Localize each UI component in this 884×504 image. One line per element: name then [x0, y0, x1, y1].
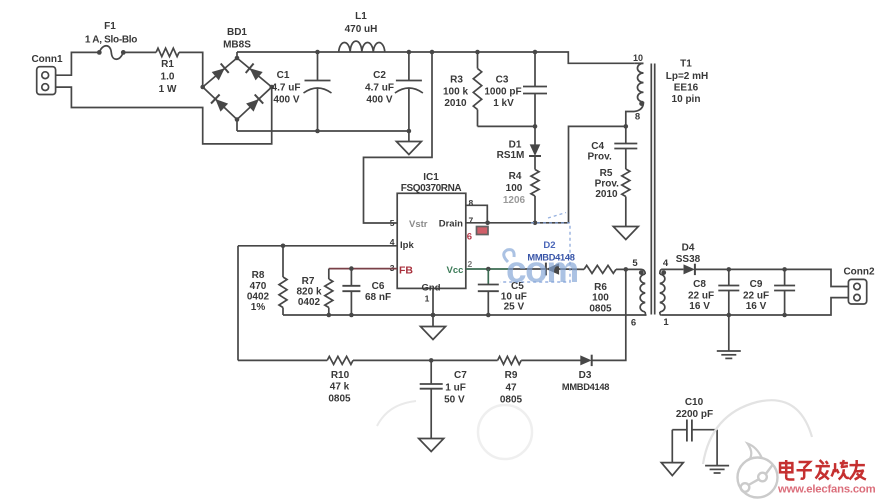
svg-text:1000 pF: 1000 pF: [484, 87, 521, 98]
svg-text:50 V: 50 V: [444, 395, 465, 406]
wire bridge plus to top rail: [236, 52, 238, 58]
svg-text:1 W: 1 W: [159, 84, 177, 95]
svg-text:5: 5: [632, 258, 638, 269]
resistor R9: [498, 356, 523, 405]
svg-text:0805: 0805: [589, 304, 612, 315]
svg-text:100: 100: [506, 183, 523, 194]
svg-text:2: 2: [468, 259, 473, 269]
svg-text:1 A, Slo-Blo: 1 A, Slo-Blo: [85, 35, 137, 46]
wire Vcc pin: [466, 267, 546, 272]
capacitor C10: [672, 397, 717, 442]
IC1 pin 3: [390, 263, 395, 273]
svg-text:BD1: BD1: [227, 27, 247, 38]
svg-text:1206: 1206: [503, 195, 526, 206]
svg-text:R6: R6: [594, 282, 607, 293]
svg-text:1: 1: [425, 294, 430, 304]
inductor L1: [339, 11, 385, 52]
T1 pin 6: [631, 318, 636, 329]
wire Conn1 pin1 to fuse: [56, 52, 100, 75]
svg-text:Conn2: Conn2: [843, 267, 875, 278]
wire Gnd pin: [431, 288, 436, 317]
wire ground rail: [283, 313, 647, 318]
svg-text:4.7 uF: 4.7 uF: [365, 83, 394, 94]
capacitor C6: [342, 269, 391, 318]
IC1 pin 8: [469, 198, 474, 208]
svg-text:1%: 1%: [251, 302, 266, 313]
wire bridge minus to bottom rail: [236, 120, 238, 132]
svg-text:SS38: SS38: [676, 254, 701, 265]
wire Ipk pin to left rail: [238, 244, 397, 249]
svg-text:100 k: 100 k: [443, 87, 468, 98]
resistor R5: [595, 168, 630, 227]
wire R6 to aux winding: [616, 267, 642, 272]
svg-text:R9: R9: [505, 370, 518, 381]
svg-text:C3: C3: [496, 75, 509, 86]
wire drain pins: [466, 205, 490, 225]
resistor R8: [247, 246, 287, 315]
bridge rectifier BD1: [200, 27, 274, 122]
earth ground below C10 right: [705, 466, 729, 473]
fuse F1: [85, 21, 137, 59]
wire R10 rail: [238, 359, 327, 361]
capacitor C2: [365, 50, 423, 134]
connector Conn1: [31, 54, 63, 95]
wire secondary bottom rail: [661, 298, 848, 318]
wire Vstr pin route: [364, 50, 435, 223]
IC1 Gnd label: [422, 283, 441, 294]
svg-text:T1: T1: [680, 59, 692, 70]
wire drain riser: [569, 124, 629, 223]
diode D3: [562, 355, 609, 392]
IC1 Ipk label: [400, 240, 414, 251]
svg-text:470 uH: 470 uH: [345, 24, 378, 35]
IC1 Vcc label: [447, 265, 464, 276]
svg-text:EE16: EE16: [674, 83, 699, 94]
capacitor C3: [484, 50, 547, 127]
svg-text:Vcc: Vcc: [447, 265, 464, 276]
svg-text:100: 100: [592, 293, 609, 304]
svg-text:C9: C9: [750, 279, 763, 290]
watermark blue com text: [504, 249, 578, 290]
svg-text:www.elecfans.com: www.elecfans.com: [777, 484, 876, 496]
svg-text:R7: R7: [302, 276, 315, 287]
svg-text:Drain: Drain: [439, 219, 463, 230]
wire drain rail: [488, 221, 569, 226]
svg-text:RS1M: RS1M: [497, 150, 525, 161]
IC1 pin 1: [425, 294, 430, 304]
svg-text:10 pin: 10 pin: [672, 94, 701, 105]
svg-text:8: 8: [469, 198, 474, 208]
svg-text:470: 470: [250, 281, 267, 292]
ground below C8: [717, 315, 741, 358]
svg-text:L1: L1: [355, 11, 367, 22]
T1 pin 10: [633, 53, 643, 63]
svg-text:MMBD4148: MMBD4148: [562, 382, 609, 392]
T1 pin 1: [663, 317, 669, 328]
diode D1: [497, 126, 541, 161]
svg-text:0805: 0805: [328, 394, 351, 405]
svg-text:4: 4: [663, 258, 669, 269]
svg-text:2010: 2010: [444, 98, 467, 109]
logo red chinese text: [780, 460, 866, 479]
svg-text:8: 8: [635, 112, 640, 123]
wire C10 left leg: [671, 430, 673, 463]
svg-text:C1: C1: [277, 70, 290, 81]
svg-text:R5: R5: [600, 168, 613, 179]
capacitor C1: [272, 50, 332, 134]
IC1 pin 4: [390, 237, 395, 247]
wire fuse to R1: [123, 51, 156, 53]
svg-text:22 uF: 22 uF: [743, 291, 769, 302]
logo url text: [777, 484, 876, 496]
svg-text:D1: D1: [509, 140, 522, 151]
IC1 FB label: [399, 265, 413, 277]
svg-text:Lp=2 mH: Lp=2 mH: [666, 71, 709, 82]
svg-text:7: 7: [469, 216, 474, 226]
op-amp U1 IC1 FSQ0370RNA box: [397, 172, 466, 288]
wire bottom rail: [237, 130, 409, 132]
resistor R3: [443, 50, 482, 127]
IC1 pin 5: [390, 218, 395, 228]
ground below R5: [613, 227, 638, 240]
wire Conn1 pin2 to bridge AC2: [56, 87, 272, 144]
svg-text:68 nF: 68 nF: [365, 292, 391, 303]
resistor R10: [327, 356, 353, 404]
wire FB pin: [329, 266, 397, 271]
diode D2: [527, 240, 574, 275]
svg-text:C2: C2: [373, 70, 386, 81]
svg-text:C7: C7: [454, 370, 467, 381]
svg-text:com: com: [506, 249, 578, 290]
transformer T1 secondary winding: [660, 269, 666, 315]
capacitor C7: [420, 360, 468, 438]
svg-text:6: 6: [467, 232, 472, 243]
svg-text:FB: FB: [399, 265, 413, 277]
wire R9 to D3: [521, 359, 580, 361]
connector Conn2: [843, 267, 875, 305]
watermark red block near IC1 pin 6: [477, 227, 489, 235]
wire D2 to R6: [559, 268, 585, 270]
ground below C2: [396, 131, 421, 155]
svg-text:25 V: 25 V: [504, 302, 525, 313]
svg-text:0402: 0402: [247, 292, 270, 303]
IC1 pin 2: [468, 259, 473, 269]
svg-text:Gnd: Gnd: [422, 283, 441, 294]
transformer T1 aux winding: [639, 269, 647, 315]
svg-text:C8: C8: [693, 279, 706, 290]
transformer T1 primary winding: [626, 63, 644, 126]
ground below C10 left: [661, 463, 683, 476]
svg-text:R3: R3: [450, 75, 463, 86]
wire snubber bottom: [478, 124, 538, 129]
svg-text:1.0: 1.0: [161, 72, 175, 83]
capacitor C4: [587, 126, 637, 169]
svg-text:Vstr: Vstr: [409, 219, 428, 230]
IC1 Vstr label: [409, 219, 428, 230]
svg-text:10: 10: [633, 53, 643, 63]
transformer T1 core: [651, 64, 654, 315]
svg-text:D3: D3: [579, 370, 592, 381]
IC1 Drain label: [439, 219, 463, 230]
wire secondary top rail: [695, 267, 848, 286]
svg-text:2010: 2010: [595, 189, 618, 200]
svg-text:6: 6: [631, 318, 636, 329]
svg-text:FSQ0370RNA: FSQ0370RNA: [401, 183, 462, 194]
resistor R4: [503, 156, 539, 223]
diode D4: [661, 243, 700, 276]
logo gray circuit mark: [738, 444, 778, 498]
svg-text:4.7 uF: 4.7 uF: [272, 83, 301, 94]
resistor R7: [296, 269, 332, 318]
resistor R6: [584, 265, 616, 314]
T1 pin 8: [635, 112, 640, 123]
svg-text:D4: D4: [682, 243, 695, 254]
svg-text:1: 1: [663, 317, 669, 328]
resistor R1: [156, 48, 179, 95]
wire R1 to bridge AC1: [179, 52, 203, 87]
watermark gray arc near C10: [703, 400, 812, 464]
svg-text:1 kV: 1 kV: [493, 98, 514, 109]
transformer T1 labels: [666, 59, 709, 106]
svg-text:47 k: 47 k: [330, 382, 350, 393]
svg-text:C4: C4: [591, 141, 604, 152]
svg-text:400 V: 400 V: [273, 95, 299, 106]
watermark faint circle left of C10: [478, 405, 532, 459]
capacitor C9: [743, 269, 795, 315]
svg-text:820 k: 820 k: [296, 287, 321, 298]
IC1 pin 7: [469, 216, 474, 226]
svg-text:R8: R8: [252, 270, 265, 281]
svg-text:16 V: 16 V: [746, 301, 767, 312]
svg-text:Conn1: Conn1: [31, 54, 63, 65]
wire R10 to R9: [353, 358, 498, 363]
capacitor C5: [478, 269, 527, 315]
svg-text:2200 pF: 2200 pF: [676, 409, 713, 420]
wire left rail: [237, 246, 239, 361]
svg-text:C6: C6: [372, 281, 385, 292]
capacitor C8: [688, 269, 739, 315]
ground below C7: [419, 439, 444, 452]
svg-text:R10: R10: [331, 370, 350, 381]
svg-text:47: 47: [505, 383, 517, 394]
T1 pin 4: [663, 258, 669, 269]
wire C10 right leg: [716, 430, 718, 466]
svg-text:IC1: IC1: [423, 172, 439, 183]
svg-text:Prov.: Prov.: [587, 152, 611, 163]
svg-text:16 V: 16 V: [689, 301, 710, 312]
svg-text:R1: R1: [161, 59, 174, 70]
svg-text:400 V: 400 V: [366, 95, 392, 106]
svg-text:1 uF: 1 uF: [445, 383, 466, 394]
svg-text:22 uF: 22 uF: [688, 291, 714, 302]
svg-text:C10: C10: [685, 397, 704, 408]
ground below IC1: [421, 315, 446, 340]
watermark blue dashed box: [500, 213, 570, 283]
watermark faint arc near C7: [377, 401, 416, 426]
T1 pin 5: [632, 258, 638, 269]
svg-text:R4: R4: [509, 171, 522, 182]
svg-text:Ipk: Ipk: [400, 240, 414, 251]
svg-text:F1: F1: [104, 21, 116, 32]
IC1 pin 6: [467, 232, 472, 243]
svg-text:0402: 0402: [298, 297, 321, 308]
svg-text:Prov.: Prov.: [595, 179, 619, 190]
svg-text:MB8S: MB8S: [223, 40, 251, 51]
wire top rail: [237, 52, 634, 63]
wire aux to D3: [592, 269, 626, 360]
